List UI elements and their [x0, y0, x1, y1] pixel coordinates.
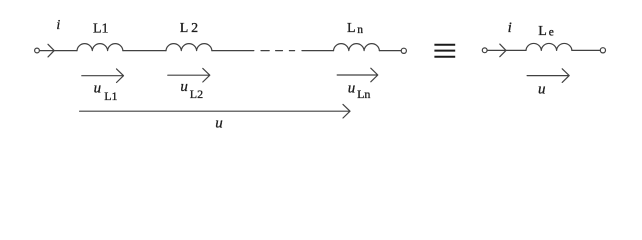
voltage arrow u (total) — [80, 104, 350, 118]
svg-text:i: i — [508, 20, 512, 36]
current arrow i (marker on wire, equivalent circuit) — [500, 44, 506, 57]
terminal T4 (equivalent circuit right circle) — [600, 48, 605, 53]
svg-text:i: i — [56, 18, 60, 33]
svg-text:u: u — [94, 81, 102, 97]
wire dashes to Ln — [302, 50, 334, 52]
wire T3 to Le — [487, 49, 526, 51]
svg-text:u: u — [180, 79, 188, 95]
voltage arrow uL2 — [168, 68, 210, 82]
svg-text:u: u — [348, 80, 356, 96]
svg-text:Ln: Ln — [357, 87, 370, 101]
wire T1 to L1 — [40, 50, 77, 52]
wire L2 to dashes — [212, 50, 254, 52]
wire Ln to T2 — [379, 50, 401, 52]
equivalence symbol ≡ — [434, 45, 455, 57]
svg-text:e: e — [549, 27, 554, 39]
svg-text:L2: L2 — [190, 87, 203, 101]
terminal T1 (left open circle) — [35, 48, 40, 53]
inductor L2 — [166, 44, 212, 51]
inductor Ln — [334, 44, 380, 51]
svg-text:n: n — [357, 24, 363, 36]
terminal T2 (right open circle of chain) — [401, 48, 406, 53]
inductor L1 — [77, 44, 123, 51]
svg-text:L: L — [347, 21, 356, 36]
voltage arrow uL1 — [82, 69, 124, 83]
wire Le to T4 — [572, 49, 600, 51]
inductor Le — [526, 43, 572, 50]
voltage arrow u (equivalent) — [527, 69, 569, 83]
voltage arrow uLn — [337, 68, 378, 82]
svg-text:L: L — [538, 24, 547, 39]
terminal T3 (equivalent circuit left circle) — [482, 48, 487, 53]
svg-text:L1: L1 — [104, 89, 117, 103]
svg-text:L 2: L 2 — [180, 21, 198, 36]
svg-text:L1: L1 — [93, 22, 109, 37]
wire dashed (ellipsis) — [261, 50, 295, 52]
svg-text:u: u — [538, 82, 546, 98]
svg-text:u: u — [215, 115, 223, 131]
wire L1 to L2 — [123, 50, 166, 52]
current arrow i (marker on wire) — [48, 44, 54, 57]
